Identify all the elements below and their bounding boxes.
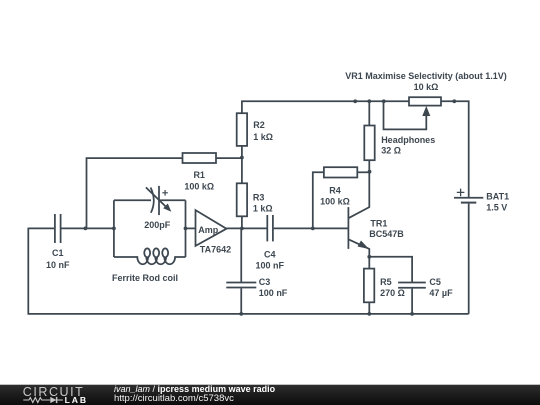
svg-text:Ferrite Rod coil: Ferrite Rod coil xyxy=(112,273,178,283)
wire riser to R1 row xyxy=(87,158,183,228)
wire R4 right xyxy=(357,171,369,173)
resistor R2 xyxy=(237,113,247,146)
node amp out R3 C3 xyxy=(240,227,244,231)
wire tank to amp xyxy=(186,227,196,229)
capacitor C5 xyxy=(398,283,426,288)
node C5 ground xyxy=(410,312,414,316)
svg-text:47 µF: 47 µF xyxy=(429,288,453,298)
svg-text:R5: R5 xyxy=(380,277,392,287)
wire R2 top xyxy=(241,101,243,113)
svg-text:BC547B: BC547B xyxy=(369,229,404,239)
inductor ferrite rod coil xyxy=(114,248,186,264)
wire headphones top xyxy=(368,101,370,125)
node pot right xyxy=(452,99,456,103)
capacitor C1 xyxy=(55,214,61,243)
svg-text:200pF: 200pF xyxy=(144,220,171,230)
wire ground bottom xyxy=(28,313,469,315)
svg-text:C4: C4 xyxy=(264,249,276,259)
svg-text:1 kΩ: 1 kΩ xyxy=(253,203,273,213)
tank loop right edge xyxy=(185,200,187,257)
variable capacitor arrow xyxy=(146,187,167,207)
node tank left xyxy=(112,227,116,231)
svg-text:100 kΩ: 100 kΩ xyxy=(184,182,214,192)
plus sign of 200pF xyxy=(162,190,168,196)
svg-text:TA7642: TA7642 xyxy=(200,245,231,255)
svg-text:BAT1: BAT1 xyxy=(486,191,509,201)
tank loop left edge xyxy=(113,200,115,257)
svg-text:1.5 V: 1.5 V xyxy=(486,202,507,212)
wire R3 bottom xyxy=(241,216,243,228)
transistor emitter xyxy=(348,239,369,256)
svg-text:R2: R2 xyxy=(253,120,265,130)
wire collector xyxy=(348,172,369,219)
wire C5 bottom xyxy=(411,289,413,314)
node headphones top xyxy=(367,99,371,103)
resistor R1 xyxy=(183,153,217,163)
battery plus sign xyxy=(457,189,465,197)
wire C1 to tank xyxy=(61,227,114,229)
wire emitter node to R5 xyxy=(368,257,370,269)
svg-text:R3: R3 xyxy=(253,192,265,202)
wire left column xyxy=(27,228,29,314)
circuitlab logo xyxy=(20,384,95,405)
wire top row xyxy=(241,100,409,102)
svg-text:270 Ω: 270 Ω xyxy=(380,288,405,298)
svg-text:10 kΩ: 10 kΩ xyxy=(414,82,439,92)
svg-text:100 nF: 100 nF xyxy=(256,261,285,271)
node C1/R1 xyxy=(84,227,88,231)
resistor R4 xyxy=(324,167,357,177)
transistor Q1 bar xyxy=(347,207,349,249)
VR1 wiper arrow xyxy=(422,106,430,116)
wire amp out xyxy=(227,227,267,229)
wire C4 to base xyxy=(274,227,349,229)
node emitter xyxy=(367,255,371,259)
wire R4 left leg xyxy=(313,172,324,228)
node C4 R4 base xyxy=(311,227,315,231)
potentiometer VR1 xyxy=(409,97,441,105)
tank loop top edge xyxy=(114,199,151,201)
svg-text:LAB: LAB xyxy=(65,395,88,405)
svg-text:VR1 Maximise Selectivity (abou: VR1 Maximise Selectivity (about 1.1V) xyxy=(345,71,507,81)
node C3 ground xyxy=(239,312,243,316)
svg-text:R1: R1 xyxy=(193,170,205,180)
resistor R3 xyxy=(237,183,247,216)
wire emitter to C5 xyxy=(369,257,412,283)
node collector R4 xyxy=(368,170,372,174)
svg-text:100 nF: 100 nF xyxy=(259,288,288,298)
svg-text:TR1: TR1 xyxy=(370,218,387,228)
svg-text:10 nF: 10 nF xyxy=(46,260,70,270)
node top wire 1 xyxy=(353,99,357,103)
resistor R5 xyxy=(364,269,374,303)
capacitor C4 xyxy=(267,215,273,241)
node R1 R2 R3 xyxy=(240,156,244,160)
resistor Headphones 32ohm xyxy=(364,126,374,161)
svg-text:100 kΩ: 100 kΩ xyxy=(320,196,350,206)
wire pot right to battery corner xyxy=(441,101,469,197)
node tank right xyxy=(184,227,188,231)
svg-text:R4: R4 xyxy=(329,186,341,196)
svg-text:C5: C5 xyxy=(429,277,441,287)
node wiper top xyxy=(382,99,386,103)
wire headphones bottom xyxy=(368,160,370,172)
wire R5 bottom xyxy=(368,302,370,314)
wire main row left xyxy=(28,227,54,229)
wire R2 bottom to R3 top xyxy=(241,146,243,183)
variable capacitor 200pF plates xyxy=(151,188,154,213)
footer bar xyxy=(0,384,540,405)
svg-text:Amp: Amp xyxy=(198,225,219,235)
svg-text:C1: C1 xyxy=(52,248,64,258)
svg-text:Headphones: Headphones xyxy=(381,135,435,145)
op-amp U1 TA7642 xyxy=(196,210,227,246)
svg-text:C3: C3 xyxy=(259,277,271,287)
wire C3 bottom xyxy=(240,288,242,314)
capacitor C3 xyxy=(226,283,256,288)
svg-text:1 kΩ: 1 kΩ xyxy=(253,132,273,142)
node R5 ground xyxy=(367,312,371,316)
battery BAT1 plates xyxy=(454,197,483,199)
wire R1 to R2R3 node xyxy=(216,157,242,159)
svg-text:32 Ω: 32 Ω xyxy=(381,145,401,155)
wire C3 top xyxy=(240,228,242,282)
wire battery bottom xyxy=(468,204,470,314)
